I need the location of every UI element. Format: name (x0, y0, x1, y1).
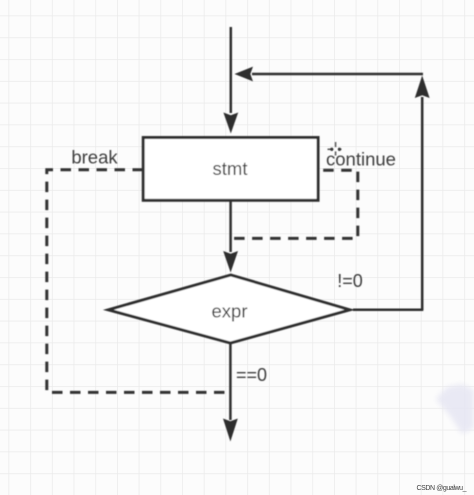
arrowhead: entry into stmt (223, 113, 238, 134)
process box stmt (143, 138, 318, 201)
arrowhead: into expr (223, 251, 238, 273)
svg-text:break: break (71, 147, 118, 168)
decision diamond expr (108, 275, 349, 343)
wire: right vertical return line (421, 97, 424, 310)
svg-text:expr: expr (212, 301, 248, 322)
arrowhead: up into corner (415, 76, 430, 99)
svg-text:!=0: !=0 (337, 271, 363, 291)
wire: entry vertical line (230, 27, 233, 113)
arrowhead: return into entry line (235, 67, 254, 82)
wire: top return horizontal line (252, 73, 423, 76)
wire: expr to exit vertical (229, 343, 232, 420)
wire: break dashed path (47, 170, 229, 393)
wire: stmt to expr vertical (229, 200, 232, 252)
svg-text:CSDN @gualwu_: CSDN @gualwu_ (417, 485, 467, 492)
svg-text:stmt: stmt (213, 158, 248, 179)
arrowhead: exit bottom (223, 419, 238, 442)
cursor crosshair icon (328, 142, 342, 156)
wire: diamond right to corner horizontal (353, 309, 423, 312)
wire: continue dashed path (234, 170, 358, 238)
svg-text:==0: ==0 (236, 365, 267, 385)
svg-text:continue: continue (326, 149, 396, 170)
